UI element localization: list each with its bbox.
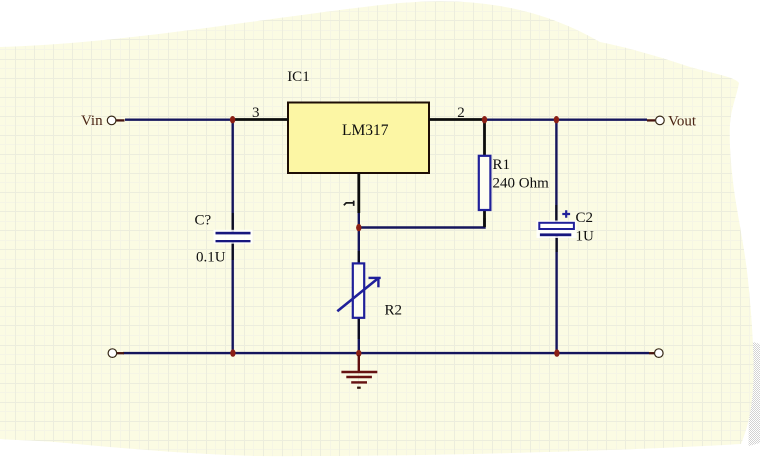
node Vout label [668, 114, 697, 130]
capacitor C? body [214, 230, 253, 244]
junction ground node [356, 350, 361, 357]
IC U1 : LM317 regulator body [288, 103, 429, 174]
resistor R2 (variable) [337, 263, 380, 317]
junction C2 bottom node [554, 349, 559, 356]
node Vin label [81, 113, 103, 129]
terminal bottom-right [655, 349, 664, 358]
svg-text:LM317: LM317 [342, 122, 389, 139]
label R1 [493, 157, 511, 173]
wire junction down to C2 [555, 120, 557, 223]
wire R2 to bottom rail [358, 318, 360, 353]
pin 1 of IC1 [344, 173, 359, 213]
svg-text:240 Ohm: 240 Ohm [493, 176, 550, 192]
svg-text:R2: R2 [385, 303, 403, 319]
junction pin2/R1 node [482, 116, 487, 123]
wire C? to bottom rail [231, 242, 233, 354]
label R2 [385, 303, 403, 319]
ground [341, 355, 377, 388]
wire pin1 to adj node [358, 210, 360, 228]
svg-text:0.1U: 0.1U [196, 250, 226, 266]
terminal bottom-left [108, 349, 117, 358]
terminal Vin [107, 116, 116, 125]
capacitor C2 (polarized) [537, 210, 577, 238]
wire pin2 junction to Vout [485, 118, 656, 121]
wire adj node down to R2 [358, 228, 360, 264]
junction C2 top node [554, 116, 559, 123]
terminal Vout [656, 116, 665, 125]
value 1U [576, 229, 595, 245]
svg-text:Vin: Vin [81, 113, 103, 129]
pin 3 of IC1 [233, 105, 289, 121]
resistor R1 [479, 120, 491, 227]
pin 2 of IC1 [429, 105, 485, 121]
junction pin3/C? node [230, 116, 235, 123]
value 0.1U [196, 250, 226, 266]
wire junction down to C? [231, 120, 233, 232]
svg-text:Vout: Vout [668, 114, 697, 130]
svg-text:R1: R1 [493, 157, 511, 173]
wire adj node to R1 bottom [359, 218, 485, 228]
junction adj node [356, 224, 361, 231]
svg-text:2: 2 [457, 105, 465, 121]
label C? [195, 213, 212, 229]
wire C2 to bottom rail [555, 236, 557, 353]
label C2 [576, 210, 594, 226]
wire bottom rail [117, 352, 656, 355]
junction C? bottom node [230, 349, 235, 356]
svg-text:1U: 1U [576, 229, 595, 245]
svg-text:C?: C? [195, 213, 212, 229]
svg-text:C2: C2 [576, 210, 594, 226]
label IC1 [287, 69, 310, 85]
svg-text:3: 3 [252, 105, 260, 121]
svg-text:IC1: IC1 [287, 69, 310, 85]
wire Vin to pin3 junction [116, 119, 233, 122]
value 240 Ohm [493, 176, 550, 192]
